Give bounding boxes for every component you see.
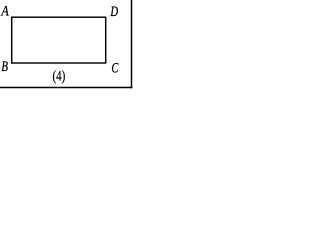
geometry figure: rectangle ABCD labelled, caption (4), frame border right+bottom: [0, 0, 133, 92]
svg-text:A: A: [1, 4, 10, 20]
svg-text:B: B: [1, 59, 8, 75]
svg-text:D: D: [110, 4, 119, 20]
frame border right edge: [131, 0, 133, 88]
svg-text:C: C: [111, 61, 119, 77]
svg-text:(4): (4): [53, 69, 66, 85]
frame border bottom edge: [0, 87, 132, 89]
rectangle ABCD outline: [12, 17, 106, 63]
